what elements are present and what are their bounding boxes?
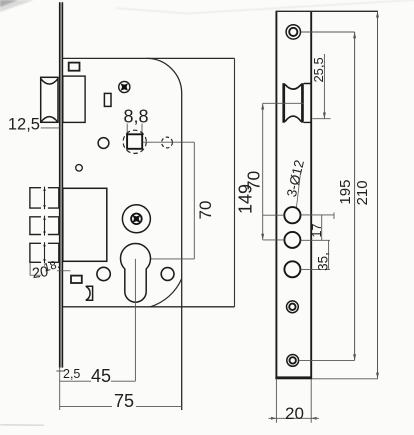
cam rotation arc: [150, 279, 182, 307]
svg-text:45: 45: [91, 366, 111, 386]
dimension line 70 (right view): [262, 103, 264, 240]
photo artifact bottom-left: [0, 425, 44, 426]
roller latch front view: [282, 83, 311, 123]
tiny circle: [76, 165, 83, 172]
latch guide box: [63, 76, 85, 122]
dimension line 17: [321, 215, 323, 240]
leader line to hole 1: [296, 171, 301, 209]
dimension line 70 (left view): [193, 142, 195, 259]
small rectangle lower: [71, 276, 82, 283]
photo artifact page-edge V top: [115, 0, 414, 14]
svg-text:70: 70: [196, 201, 215, 220]
dashed hole right of follower: [162, 137, 173, 148]
euro cylinder keyhole: [121, 243, 151, 302]
lower-right hole: [161, 268, 174, 281]
svg-text:210: 210: [354, 180, 371, 205]
cylinder centre extension line: [151, 258, 195, 260]
strike plate bottom thick band: [275, 376, 312, 379]
backset 45 extension line through cylinder: [134, 259, 136, 381]
svg-text:35,: 35,: [316, 252, 331, 271]
dimension line 149: [234, 58, 236, 306]
dimension line 25,5: [323, 54, 325, 119]
bottom screw hole: [287, 355, 299, 367]
dimension 12,5 line: [41, 127, 60, 129]
lock case top edge + extension to 149 line: [63, 57, 235, 59]
dimension line 195: [354, 32, 356, 360]
dimension line 210: [377, 11, 379, 379]
svg-text:25,5: 25,5: [311, 57, 326, 82]
big screw with star: [122, 205, 150, 233]
hole left of follower: [98, 138, 109, 149]
small vertical rectangle: [104, 93, 111, 106]
75 left extension: [59, 368, 61, 410]
dimension line 75: [60, 406, 182, 408]
hole3 right extension: [300, 268, 330, 270]
top screw hole: [286, 25, 300, 39]
spring clip: [86, 286, 93, 300]
deadbolt plate 1: [29, 187, 59, 210]
hole2 left extension: [263, 239, 285, 241]
deadbolt plate 3: [29, 242, 59, 263]
svg-text:75: 75: [114, 391, 134, 411]
svg-text:195: 195: [337, 180, 354, 205]
follower centre extension line: [143, 141, 195, 143]
faceplate edge-on inner line: [61, 2, 63, 367]
svg-text:17: 17: [310, 224, 324, 238]
photo artifact corner wedge top-left: [0, 0, 34, 12]
hole 1: [284, 207, 300, 223]
lower-left hole: [97, 267, 110, 280]
roller centre extension line: [263, 102, 304, 104]
svg-text:70: 70: [243, 171, 263, 191]
strike plate right edge: [310, 11, 312, 379]
faceplate edge-on outer line: [59, 2, 61, 367]
follower square spindle hole: [127, 134, 142, 149]
deadbolt dimension marks: [29, 262, 31, 275]
20 width extension lines: [276, 379, 311, 422]
8,8 extension ticks: [127, 124, 142, 135]
svg-text:2,5: 2,5: [63, 367, 80, 381]
deadbolt plate 2: [29, 216, 59, 236]
bottom screw extension line: [299, 359, 355, 361]
top screw extension line: [301, 31, 355, 33]
hole 3: [284, 261, 300, 277]
hole 2: [284, 232, 300, 248]
svg-text:8,8: 8,8: [123, 106, 148, 126]
hole1 right extension: [301, 213, 335, 220]
strike plate left edge: [275, 11, 277, 379]
lock case bottom edge + extension to 149 line: [63, 306, 235, 308]
latch bolt (side view): [41, 77, 58, 122]
bottom edge extension to 210 line: [312, 378, 378, 380]
faceplate thickness tick: [56, 370, 64, 372]
screw with star (top): [118, 81, 130, 93]
svg-text:12,5: 12,5: [8, 116, 40, 134]
small rectangle top of case: [69, 63, 80, 71]
svg-text:20: 20: [285, 404, 304, 423]
middle screw hole: [287, 301, 299, 313]
hole1 left extension: [263, 214, 285, 216]
hole2 right extension: [300, 239, 330, 241]
strike plate top edge + 210 extension: [276, 10, 379, 12]
dimension line 35: [328, 240, 330, 269]
lock case rounded corner and right edge: [147, 58, 182, 410]
dimension line 20: [269, 417, 320, 419]
follower hub dashed circle: [123, 130, 146, 153]
dimension line 45: [60, 380, 136, 382]
deadbolt guide rectangle: [63, 188, 107, 261]
